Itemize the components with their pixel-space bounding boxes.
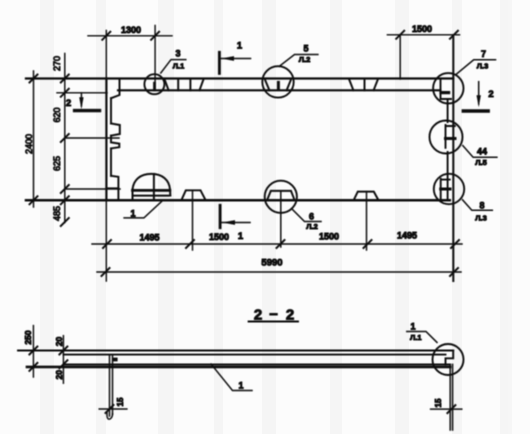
row1 tick x190 xyxy=(186,240,194,248)
leader for label 3 xyxy=(161,60,186,73)
row1 tick x280 xyxy=(277,240,285,248)
dim 1500 extension left xyxy=(399,35,401,79)
section slab top inner line xyxy=(64,354,446,356)
F-shaped keyway inside circle 8 xyxy=(441,179,450,199)
bottom dim row 1 line xyxy=(92,243,462,245)
row1 tick x107 xyxy=(103,240,111,248)
top band tooth group 2 vertical xyxy=(364,79,366,90)
svg-text:Л.1: Л.1 xyxy=(173,62,185,71)
leader for label 44 xyxy=(463,146,497,158)
panel left edge inner profile top block xyxy=(111,79,120,99)
leader for label 8 xyxy=(463,200,493,210)
section mark 1 top: bar xyxy=(218,52,221,73)
section mark 1 bottom: arrow xyxy=(222,222,250,224)
dim 1300 tick left xyxy=(102,32,110,40)
dim 1300 tick right xyxy=(151,32,159,40)
chain tick y222 xyxy=(61,218,69,226)
chain tick y93 xyxy=(61,89,69,97)
top band tooth group 2 left slant xyxy=(349,79,353,90)
section slab bottom inner line xyxy=(64,363,451,365)
section mark 2 left: arrow xyxy=(80,93,82,106)
leader 1 to section slab xyxy=(211,364,252,391)
key centerline / extension through circle 6 xyxy=(280,191,282,247)
left chain dim line xyxy=(64,54,66,223)
top band tooth group 1 left slant xyxy=(164,79,168,90)
key tick inside circle 5 xyxy=(277,82,280,88)
right top corner key thick tick xyxy=(441,91,449,94)
trapezoid key slants inside circle 5 xyxy=(265,79,292,90)
section slab top face line xyxy=(18,350,453,352)
svg-text:Л.2: Л.2 xyxy=(299,55,311,64)
left pin dim ticks xyxy=(106,405,114,413)
row2 tick right xyxy=(450,268,458,276)
svg-text:1: 1 xyxy=(410,322,415,332)
dim 2400 tick top xyxy=(30,75,38,83)
svg-text:270: 270 xyxy=(52,56,62,71)
dim 1300 extension right (through circle 3) xyxy=(154,26,156,91)
left edge key tab C xyxy=(111,136,119,149)
trapezoid key inside circle 6 xyxy=(267,191,294,200)
section right end circle 1 xyxy=(433,344,464,375)
panel left edge inner line lower xyxy=(110,148,112,175)
key tick inside circle 3 xyxy=(153,83,156,90)
lifting loop dome on bottom edge xyxy=(133,174,171,200)
top band inner line left extension xyxy=(57,92,107,94)
svg-text:2: 2 xyxy=(66,98,71,109)
detail circle 5 (top middle, on band) xyxy=(262,66,293,97)
svg-text:Л.2: Л.2 xyxy=(306,222,318,231)
svg-text:1495: 1495 xyxy=(139,233,159,243)
panel top band inner line xyxy=(118,89,441,91)
top band tooth group 2 right slant xyxy=(374,79,378,90)
right pin dim tick xyxy=(447,405,455,413)
svg-text:250: 250 xyxy=(23,330,33,344)
left anchor pin hook xyxy=(107,412,113,419)
panel top outer face line with left extension xyxy=(26,77,453,79)
top band tooth group 1 right slant xyxy=(200,79,204,90)
left chain tick b xyxy=(59,360,67,368)
dim 1500 tick left xyxy=(396,31,404,39)
svg-text:6: 6 xyxy=(309,212,314,222)
left edge key tab D xyxy=(106,176,118,189)
dim 1500 tick right xyxy=(450,31,458,39)
section slab bottom face line xyxy=(27,366,450,369)
row1 tick x367 xyxy=(364,240,372,248)
left outer column tick bottom xyxy=(29,363,37,371)
leader 1 to lifting loop xyxy=(124,201,162,218)
svg-text:8: 8 xyxy=(479,201,484,211)
dim 2400 tick bottom xyxy=(30,196,38,204)
svg-text:1500: 1500 xyxy=(209,232,229,242)
svg-text:–: – xyxy=(269,306,277,323)
left anchor pin double line xyxy=(110,356,113,416)
right end pin double line xyxy=(450,364,452,430)
detail circle 6 (bottom middle, on bottom edge) xyxy=(265,181,297,213)
panel left edge inner line upper xyxy=(110,98,112,123)
left chain tick a xyxy=(59,347,67,355)
svg-text:2400: 2400 xyxy=(24,134,34,154)
bottom edge tooth 2 xyxy=(354,192,379,200)
left bottom corner block xyxy=(117,188,119,200)
svg-text:5990: 5990 xyxy=(261,258,282,269)
svg-text:15: 15 xyxy=(116,397,125,406)
svg-text:5: 5 xyxy=(303,44,308,54)
row2 tick left xyxy=(102,268,110,276)
section mark 2 right: bar xyxy=(463,109,488,112)
bottom tooth 1 extension line xyxy=(192,190,194,250)
left edge key tab B xyxy=(111,124,120,136)
panel right edge outer face (full extension from top dim to bottom dim) xyxy=(452,35,454,281)
section mark 2 right: arrow xyxy=(478,82,480,104)
section title underline xyxy=(249,320,298,322)
svg-text:44: 44 xyxy=(477,147,487,157)
left outer dim 2400 line xyxy=(33,71,35,207)
svg-text:20: 20 xyxy=(54,370,64,380)
svg-text:1495: 1495 xyxy=(397,231,417,241)
panel right edge inner line xyxy=(447,99,449,200)
svg-text:1500: 1500 xyxy=(319,232,339,242)
leader for label 5 xyxy=(279,55,318,67)
svg-text:1: 1 xyxy=(237,41,243,52)
chain tick y200 xyxy=(61,196,69,204)
svg-text:1300: 1300 xyxy=(121,25,141,35)
chain ext line y138 xyxy=(65,137,119,139)
svg-text:1: 1 xyxy=(238,231,244,242)
bottom left extension line xyxy=(105,200,107,281)
svg-text:Л.3: Л.3 xyxy=(477,62,489,71)
detail circle 8 (bottom right corner) xyxy=(434,174,464,204)
right end rebate step xyxy=(446,351,454,365)
top band tooth group 1 vertical a xyxy=(177,79,179,90)
chain tick y79 xyxy=(61,75,69,83)
row1 tick x455 xyxy=(451,240,459,248)
bottom dim row 2 line (5990) xyxy=(97,271,461,273)
svg-text:2: 2 xyxy=(488,89,493,100)
dim 1500 line (top right) xyxy=(387,34,459,36)
dome centerline xyxy=(153,174,155,200)
top band tooth group 1 vertical b xyxy=(189,79,191,90)
svg-text:Л.1: Л.1 xyxy=(410,333,422,342)
svg-text:3: 3 xyxy=(175,49,180,59)
chain tick y189 xyxy=(61,185,69,193)
panel bottom face line with left extension xyxy=(26,199,450,202)
dome thick base band xyxy=(133,189,170,192)
svg-text:1: 1 xyxy=(130,209,135,219)
left pin dim 15 line xyxy=(99,408,127,410)
section mark 2 left: bar xyxy=(75,109,100,112)
bottom tooth 2 extension line xyxy=(366,192,368,250)
dim 1300 line (top left) xyxy=(88,35,172,37)
dome second line xyxy=(134,195,169,197)
detail circle 44 (right edge middle) xyxy=(430,121,463,154)
left outer column tick top xyxy=(29,347,37,355)
detail circle 7 (top right corner) xyxy=(433,73,463,103)
leader for label 7 xyxy=(456,60,496,75)
svg-text:1500: 1500 xyxy=(412,24,432,34)
right top corner notch vertical xyxy=(441,79,452,100)
section mark 1 bottom: bar xyxy=(219,205,222,227)
leader for label 6 xyxy=(292,209,322,222)
svg-text:620: 620 xyxy=(52,107,62,122)
section mark 1 top: arrow xyxy=(221,58,251,60)
panel left edge outer face xyxy=(105,79,107,201)
left pin top plate mark xyxy=(113,358,118,362)
svg-text:7: 7 xyxy=(481,49,486,59)
detail circle 3 (top left, on band) xyxy=(144,74,164,94)
dim 1300 extension left xyxy=(105,31,107,79)
leader for label 1 (section) xyxy=(407,332,437,343)
right pin dim 15 line xyxy=(431,408,462,410)
section left outer column xyxy=(32,326,34,377)
svg-text:625: 625 xyxy=(52,156,62,171)
section left chain column xyxy=(62,336,64,384)
svg-text:Л.5: Л.5 xyxy=(475,158,487,167)
bottom edge tooth 1 xyxy=(182,190,206,200)
svg-text:Л.3: Л.3 xyxy=(475,214,487,223)
chain ext line y189 xyxy=(65,188,120,190)
svg-text:20: 20 xyxy=(54,337,64,347)
F-shaped keyway inside circle 44 xyxy=(446,125,455,148)
svg-text:15: 15 xyxy=(434,398,443,407)
svg-text:1: 1 xyxy=(238,381,243,391)
chain tick y138 xyxy=(61,134,69,142)
svg-text:485: 485 xyxy=(52,206,62,221)
